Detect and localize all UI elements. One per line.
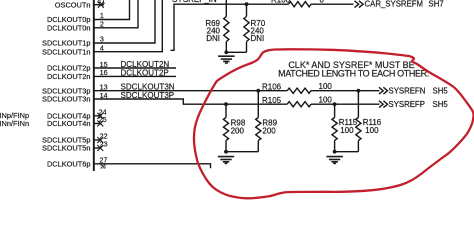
svg-text:SYSREFP: SYSREFP [389, 100, 425, 109]
resistor R70 240 DNI [246, 4, 248, 16]
pin 14 SDCLKOUT3n wire with jog, net SDCLKOUT3P [94, 99, 287, 104]
resistor R115 100 (on SDCLKOUT3P line) [334, 104, 336, 117]
pin 1 DCLKOUT0p wire (routes up) [94, 0, 130, 20]
svg-text:SYSREF_IN: SYSREF_IN [172, 0, 217, 4]
svg-text:DNI: DNI [251, 34, 265, 43]
pin 16 DCLKOUT2n stub, net DCLKOUT2P [94, 75, 176, 77]
wire SYSREF_IN net: corner at (174,4.2), stub down to y=50.3 with hook [171, 4, 289, 50]
resistor R89 200 (on SDCLKOUT3N line, crosses P line) [257, 91, 259, 118]
svg-text:OSCOUTn: OSCOUTn [55, 0, 91, 9]
svg-text:27: 27 [99, 155, 107, 164]
resistor R116 100 (on SDCLKOUT3N line, crosses P line) [357, 91, 359, 118]
resistor R105 100 (series in SYSREFP line) [287, 102, 311, 107]
svg-text:3: 3 [100, 35, 104, 44]
ground below R98/R89 [218, 156, 234, 158]
pin 15 DCLKOUT2p stub, net DCLKOUT2N [94, 67, 176, 69]
wire R106 to SYSREFN connector [311, 90, 380, 92]
wire joining R98/R89 bottoms [226, 151, 258, 153]
svg-text:16: 16 [100, 68, 108, 77]
resistor R106 100 (series in SYSREFN line) [287, 88, 311, 93]
pin 41 OSCOUTn no-connect stub [94, 4, 104, 6]
resistor R69 240 DNI [225, 0, 227, 17]
pin 27 DCLKOUT6p wire with end tick [94, 164, 211, 169]
svg-text:SH5: SH5 [433, 86, 449, 95]
svg-text:SDCLKOUT1n: SDCLKOUT1n [42, 47, 90, 56]
pin 24 DCLKOUT4p no-connect stub [94, 115, 102, 117]
ground below R115/R116 [326, 156, 343, 158]
svg-text:100: 100 [319, 82, 333, 91]
svg-text:SDCLKOUT1p: SDCLKOUT1p [42, 39, 90, 48]
wire R105 to SYSREFP connector [311, 103, 380, 105]
svg-text:100: 100 [340, 126, 354, 135]
svg-text:DCLKOUT2n: DCLKOUT2n [47, 72, 91, 81]
svg-text:SH7: SH7 [429, 0, 444, 9]
svg-text:SDCLKOUT3P: SDCLKOUT3P [121, 91, 175, 100]
pin 25 DCLKOUT4n no-connect stub [94, 123, 102, 125]
svg-text:SYSREFN: SYSREFN [389, 86, 426, 95]
svg-text:DCLKOUT2P: DCLKOUT2P [121, 68, 169, 77]
junction dot at R69 bottom [224, 50, 228, 54]
ground below R69/R70 [218, 55, 235, 57]
svg-text:4: 4 [100, 43, 104, 52]
pin 22 SDCLKOUT5p no-connect stub [94, 139, 102, 141]
svg-text:DCLKOUT4n: DCLKOUT4n [47, 119, 91, 128]
pin 23 SDCLKOUT5n no-connect stub [94, 147, 102, 149]
svg-text:INn/FINn: INn/FINn [0, 119, 29, 128]
svg-text:100: 100 [319, 96, 333, 105]
svg-text:R106: R106 [262, 82, 282, 91]
pin 4 SDCLKOUT1n wire (routes up) [94, 0, 163, 52]
pin 2 DCLKOUT0n wire (routes up) [94, 0, 138, 28]
svg-text:DNI: DNI [206, 34, 220, 43]
pin 3 SDCLKOUT1p wire (routes up) [94, 0, 155, 43]
wire joining R115/R116 bottoms [335, 151, 359, 153]
pin 13 SDCLKOUT3p wire, net SDCLKOUT3N [94, 90, 287, 92]
svg-text:14: 14 [100, 91, 108, 100]
svg-text:200: 200 [262, 126, 276, 135]
resistor R100 (0 ohm, series in SYSREF line) [289, 2, 312, 7]
wire from R100 to off-page connector [311, 3, 354, 5]
off-page connector CAR_SYSREFM SH7 [355, 1, 364, 8]
svg-text:SDCLKOUT5n: SDCLKOUT5n [42, 144, 90, 153]
wire joining R69/R70 bottoms [226, 51, 246, 53]
junction dot R70 tap on SYSREF_IN wire [245, 2, 249, 6]
svg-text:SDCLKOUT3n: SDCLKOUT3n [42, 95, 90, 104]
svg-text:R105: R105 [262, 96, 282, 105]
svg-text:MATCHED LENGTH TO EACH OTHER.: MATCHED LENGTH TO EACH OTHER. [278, 69, 429, 79]
off-page connector SYSREFN SH5 [379, 87, 388, 94]
resistor R98 200 (on SDCLKOUT3P line) [225, 104, 227, 117]
svg-text:R100: R100 [271, 0, 291, 4]
svg-text:2: 2 [100, 20, 104, 29]
IC U1 boundary (right edge of clock-generator symbol) [93, 0, 95, 171]
svg-text:200: 200 [231, 126, 245, 135]
svg-text:SH5: SH5 [433, 100, 449, 109]
svg-text:DCLKOUT0n: DCLKOUT0n [47, 23, 91, 32]
svg-text:DCLKOUT6p: DCLKOUT6p [47, 159, 91, 168]
svg-text:CAR_SYSREFM: CAR_SYSREFM [365, 0, 424, 9]
red hand-drawn annotation loop [194, 49, 474, 198]
svg-text:100: 100 [365, 126, 379, 135]
off-page connector SYSREFP SH5 [379, 101, 388, 108]
